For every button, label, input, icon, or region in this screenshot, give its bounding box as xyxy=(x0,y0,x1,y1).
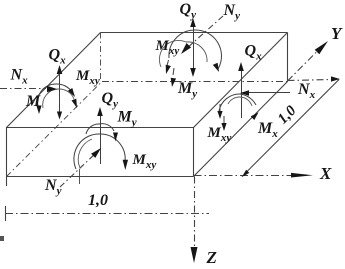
plate back right vertical edge xyxy=(287,33,289,82)
arrowhead Q_x right (up) xyxy=(238,62,244,71)
M_xy stacked line upper (back) xyxy=(167,60,168,65)
hidden back left vertical edge (dashed) xyxy=(100,33,102,82)
hidden bottom left edge (dashed) xyxy=(7,82,103,177)
arrowhead N_x right dash-dot end xyxy=(331,76,340,81)
svg-text:Y: Y xyxy=(331,24,343,43)
arrowhead M_y back (down) xyxy=(190,68,196,77)
moment arc back (inner) xyxy=(159,40,207,67)
arrowhead N_y back (down-left) xyxy=(181,43,191,54)
svg-text:My: My xyxy=(177,80,197,100)
moment arc M (left outer) xyxy=(38,84,72,109)
svg-text:Ny: Ny xyxy=(44,177,62,197)
svg-text:1,0: 1,0 xyxy=(275,103,300,128)
arrowhead depth diagonal foot xyxy=(242,170,249,177)
arrowhead M_xy stacked lower (right) xyxy=(221,123,226,131)
bottom dimension line 1,0 xyxy=(5,213,209,215)
svg-text:Mxy: Mxy xyxy=(75,68,100,87)
N_x right dash-dot line xyxy=(288,80,333,81)
axis Z dash-dot line xyxy=(194,177,196,257)
svg-text:Qx: Qx xyxy=(245,43,263,63)
arrowhead axis Z xyxy=(191,247,198,263)
moment arc back (outer) xyxy=(169,30,222,69)
plate front face right vertical edge xyxy=(193,128,195,177)
arrowhead N_x left (right) xyxy=(47,86,57,92)
svg-text:Qy: Qy xyxy=(180,1,197,21)
moment arc M (left inner) xyxy=(43,89,74,108)
moment arc front partial (inner) xyxy=(78,139,92,168)
svg-text:X: X xyxy=(319,164,332,183)
svg-text:Mxy: Mxy xyxy=(207,125,232,144)
plate top face right edge xyxy=(194,33,288,128)
arrowhead back outer arc end xyxy=(213,63,219,72)
arrowhead axis X xyxy=(291,173,313,178)
arrowhead Q_y front (up) xyxy=(97,107,103,116)
plate top face front edge xyxy=(6,127,194,129)
svg-text:Qy: Qy xyxy=(102,90,119,110)
arrowhead M_x right arc end xyxy=(251,112,259,120)
moment M central down line xyxy=(59,104,61,111)
axis X dash-dot line xyxy=(194,175,308,177)
normal force N_x right line xyxy=(246,92,290,94)
arrowhead M_xy stacked upper xyxy=(68,88,75,97)
svg-text:Mx: Mx xyxy=(257,120,278,140)
arrowhead N_x right (left) xyxy=(240,90,249,96)
depth reference diagonal line xyxy=(242,80,339,177)
shear/moment vertical line Q_y M_y back xyxy=(193,22,195,70)
moment arc M_y front xyxy=(86,124,114,134)
plate front face left vertical edge xyxy=(6,128,8,187)
arrowhead axis Y xyxy=(315,41,328,54)
shear arrow Q_x right line xyxy=(241,70,243,118)
plate bottom front edge xyxy=(7,176,194,178)
arrowhead M_y front arc end xyxy=(113,133,118,142)
plate right face bottom edge xyxy=(194,82,288,177)
axis Y dash-dot line xyxy=(288,47,323,82)
svg-text:My: My xyxy=(117,109,137,129)
hidden bottom back edge (dashed) xyxy=(102,81,288,83)
axis N_y back dash-dot line xyxy=(186,16,223,49)
svg-text:Nx: Nx xyxy=(297,81,316,101)
M_xy stacked line lower (right) xyxy=(223,116,225,124)
arrowhead M_xy stacked upper (back) xyxy=(166,65,171,74)
bottom dimension left tick xyxy=(5,206,7,221)
shear arrow Q_x left line xyxy=(59,68,61,112)
svg-text:Mxy: Mxy xyxy=(132,152,157,171)
arrowhead N_y front (up-right) xyxy=(91,148,101,158)
arrowhead M_xy stacked lower (back) xyxy=(171,78,176,87)
svg-text:M: M xyxy=(25,93,41,110)
axis N_y front dash-dot line xyxy=(60,152,97,187)
arrowhead M central (down) xyxy=(57,112,62,120)
arrowhead M_xy stacked upper (right) xyxy=(217,111,222,119)
N_y extension tick xyxy=(79,169,81,184)
arrowhead M_xy stacked lower xyxy=(72,99,78,108)
arrowhead Q_x left (up) xyxy=(57,65,63,74)
M_xy stacked line upper (right) xyxy=(219,104,221,112)
moment arc M_x right (outer) xyxy=(219,94,256,111)
plate top face back edge xyxy=(101,32,288,34)
moment arc right (inner) xyxy=(228,97,252,106)
arrowhead M_xy front arc end xyxy=(123,160,128,170)
svg-text:1,0: 1,0 xyxy=(88,192,108,209)
M_xy stacked line lower (back) xyxy=(173,68,174,75)
arrowhead Q_y back (up) xyxy=(190,18,196,27)
svg-text:Qx: Qx xyxy=(49,47,67,67)
arrowhead M left arc end (down) xyxy=(36,106,41,115)
svg-text:Z: Z xyxy=(206,248,217,267)
svg-text:Ny: Ny xyxy=(223,2,241,22)
plate top face left edge xyxy=(7,33,101,128)
svg-text:Nx: Nx xyxy=(10,67,29,87)
shear arrow Q_y front line xyxy=(100,114,102,164)
edge speck bottom left xyxy=(0,236,4,241)
moment arc M_xy front (outer) xyxy=(74,134,125,169)
axis N_x left dash-dot line xyxy=(0,88,46,90)
